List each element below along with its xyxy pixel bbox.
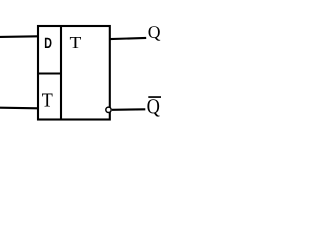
node label Q-bar glyph [147,99,159,116]
node label Q [149,26,161,41]
pin label T [42,94,53,107]
wire: Q output [110,38,146,39]
label T (flip-flop type) [70,37,81,48]
wire: D input [0,35,38,38]
wire: T input [0,107,38,110]
inversion bubble [106,107,111,112]
node label Q-bar overline [148,96,161,98]
divider: input column [60,25,62,121]
wire: Q-bar output [112,108,145,111]
pin label D [45,38,52,48]
flip-flop U1 body outline [38,26,110,120]
divider: between D cell and T cell [37,72,62,74]
